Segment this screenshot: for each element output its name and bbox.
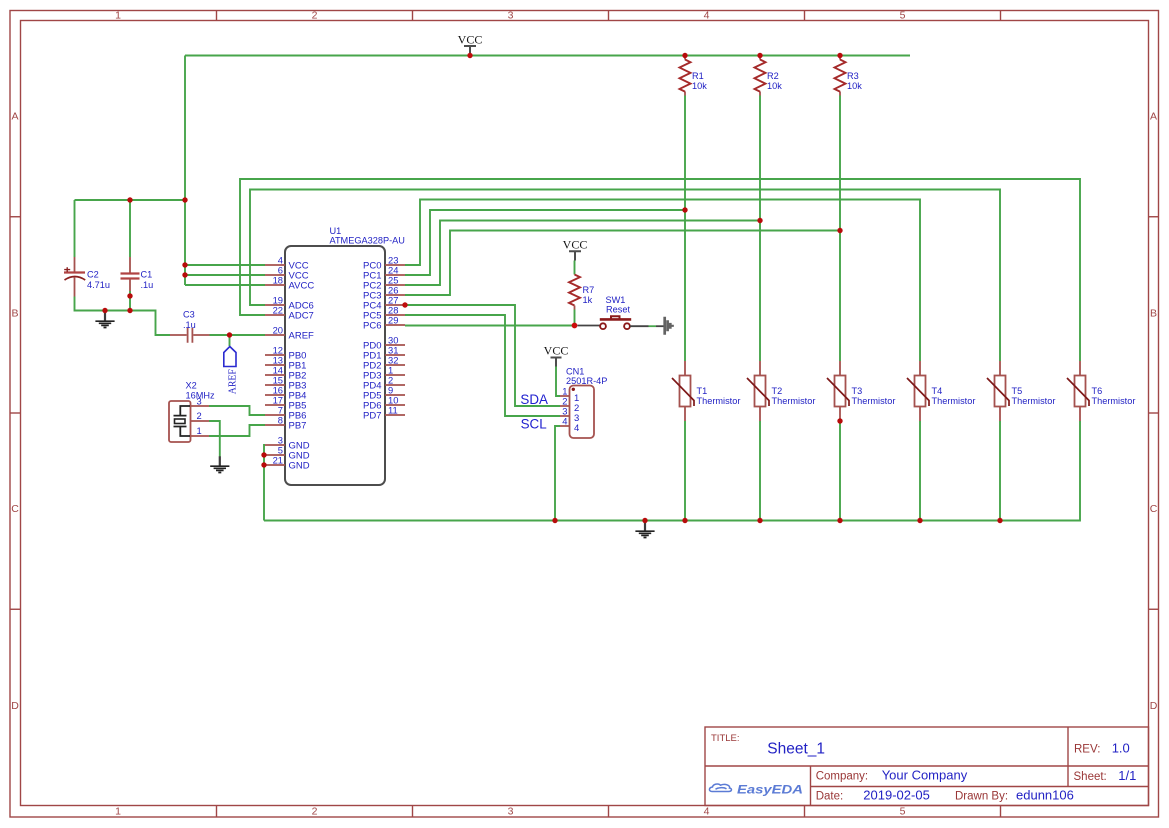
- wire T5 bottom: [999, 421, 1001, 521]
- net flag AREF: [224, 335, 239, 394]
- svg-text:Thermistor: Thermistor: [772, 396, 816, 406]
- svg-text:1: 1: [115, 10, 121, 22]
- svg-text:EasyEDA: EasyEDA: [737, 785, 803, 797]
- wire ADC6 to T5 net: [250, 190, 1000, 362]
- resistor R1: [680, 56, 708, 96]
- junction (405,305): [402, 302, 407, 307]
- wire PC4 to CN1 pin2: [405, 305, 560, 406]
- svg-text:10k: 10k: [767, 81, 782, 91]
- svg-text:C2: C2: [87, 270, 99, 280]
- net flag VCC at R7: [563, 238, 588, 261]
- junction (264,455): [261, 452, 266, 457]
- svg-text:3: 3: [508, 10, 514, 22]
- svg-text:REV:: REV:: [1074, 743, 1100, 755]
- wire PC5 to CN1 pin3: [405, 315, 560, 416]
- wire ADC7 to T6 net: [240, 179, 1080, 361]
- svg-text:1k: 1k: [583, 295, 593, 305]
- junction (760,55.5): [757, 53, 762, 58]
- svg-text:21: 21: [273, 455, 283, 466]
- svg-text:10k: 10k: [847, 81, 862, 91]
- junction (760,520.5): [757, 518, 762, 523]
- junction (130,310.5): [127, 308, 132, 313]
- svg-text:SW1: SW1: [606, 295, 626, 305]
- resistor R3: [835, 56, 863, 96]
- svg-text:5: 5: [900, 10, 906, 22]
- junction (840,520.5): [837, 518, 842, 523]
- U1 right pin names: [363, 261, 381, 422]
- svg-text:T2: T2: [772, 386, 783, 396]
- svg-text:T1: T1: [697, 386, 708, 396]
- wire T2 bottom: [759, 421, 761, 521]
- junction (840,55.5): [837, 53, 842, 58]
- svg-text:VCC: VCC: [544, 344, 569, 358]
- svg-text:B: B: [1150, 308, 1157, 320]
- wire C3 to AREF pin: [210, 334, 266, 336]
- svg-text:.1u: .1u: [141, 280, 154, 290]
- wire R3 to T3: [839, 96, 841, 362]
- wire R1 to T1: [684, 96, 686, 362]
- ground below X2: [210, 456, 229, 472]
- svg-text:C: C: [1150, 503, 1158, 515]
- crystal X2: [169, 381, 215, 443]
- svg-text:Thermistor: Thermistor: [852, 396, 896, 406]
- thermistor T5: [987, 361, 1055, 421]
- svg-text:Thermistor: Thermistor: [932, 396, 976, 406]
- svg-text:Thermistor: Thermistor: [1012, 396, 1056, 406]
- svg-text:AREF: AREF: [289, 331, 315, 342]
- svg-text:3: 3: [197, 396, 202, 407]
- ground left: [95, 311, 114, 328]
- ground at bottom rail: [635, 521, 654, 538]
- svg-text:SCL: SCL: [521, 417, 547, 432]
- capacitor C3: [170, 310, 210, 343]
- junction (105,310.5): [102, 308, 107, 313]
- wire CN1 pin4 to gnd rail: [555, 426, 560, 521]
- svg-text:R7: R7: [583, 285, 595, 295]
- thermistor T6: [1067, 361, 1135, 421]
- svg-text:C: C: [11, 503, 19, 515]
- svg-text:11: 11: [388, 405, 398, 416]
- net flag VCC at CN1: [544, 344, 569, 367]
- svg-text:Thermistor: Thermistor: [697, 396, 741, 406]
- junction (840,421): [837, 418, 842, 423]
- title block: [705, 727, 1149, 806]
- svg-text:C1: C1: [141, 270, 153, 280]
- wire VCC top rail: [185, 55, 910, 57]
- svg-text:2: 2: [312, 806, 318, 818]
- wire X2 pin1 to PB7: [209, 425, 265, 436]
- svg-text:TITLE:: TITLE:: [711, 733, 740, 744]
- svg-text:B: B: [11, 308, 18, 320]
- EasyEDA logo: [709, 784, 803, 796]
- junction VCC top: [467, 53, 472, 58]
- junction (645,520.5): [642, 518, 647, 523]
- junction (685,55.5): [682, 53, 687, 58]
- svg-text:ADC7: ADC7: [289, 311, 314, 322]
- junction (185,275): [182, 272, 187, 277]
- net flag VCC top: [458, 33, 483, 56]
- svg-text:2: 2: [312, 10, 318, 22]
- thermistor T2: [747, 361, 815, 421]
- svg-text:4: 4: [704, 806, 710, 818]
- junction (574.5,325.5): [572, 323, 578, 329]
- svg-text:R3: R3: [847, 71, 859, 81]
- wire PC1 to T1 net: [405, 210, 685, 275]
- junction (555,520.5): [552, 518, 557, 523]
- wire PC2 to T2 net: [405, 221, 760, 286]
- svg-text:SDA: SDA: [520, 392, 548, 407]
- junction (130,200): [127, 197, 132, 202]
- U1 right pin stubs: [385, 265, 405, 415]
- svg-text:A: A: [1150, 111, 1157, 123]
- svg-text:VCC: VCC: [563, 238, 588, 252]
- junction (264,465): [261, 462, 266, 467]
- svg-text:AVCC: AVCC: [289, 281, 315, 292]
- svg-text:4: 4: [704, 10, 710, 22]
- junction (760,220): [757, 218, 762, 223]
- wire VCC to CN1 pin1: [556, 367, 560, 397]
- svg-text:2: 2: [197, 410, 202, 421]
- svg-text:AREF: AREF: [227, 369, 239, 394]
- capacitor C1: [121, 200, 154, 311]
- switch SW1: [578, 295, 664, 329]
- svg-text:Company:: Company:: [816, 771, 868, 783]
- svg-text:4.71u: 4.71u: [87, 280, 110, 290]
- svg-text:8: 8: [278, 415, 283, 426]
- wire VCC feed left: [185, 56, 265, 286]
- svg-text:2501R-4P: 2501R-4P: [566, 376, 607, 386]
- junction (185,265): [182, 262, 187, 267]
- svg-text:X2: X2: [186, 381, 197, 391]
- wire T1 bottom: [684, 421, 686, 521]
- svg-text:5: 5: [900, 806, 906, 818]
- svg-text:CN1: CN1: [566, 367, 584, 377]
- wire PC0 to T4 net: [405, 200, 920, 362]
- junction (185,200): [182, 197, 187, 202]
- svg-text:R1: R1: [692, 71, 704, 81]
- svg-text:Reset: Reset: [606, 305, 630, 315]
- wire PC3 to T3 net: [405, 231, 840, 296]
- junction (840,230.5): [837, 228, 842, 233]
- svg-text:Your Company: Your Company: [882, 768, 968, 783]
- svg-text:2019-02-05: 2019-02-05: [863, 787, 930, 802]
- junction (1000,520.5): [997, 518, 1002, 523]
- thermistor T4: [907, 361, 975, 421]
- U1 left pin names: [289, 261, 315, 472]
- wire C-rail top: [75, 199, 186, 201]
- svg-text:PD7: PD7: [363, 411, 381, 422]
- resistor R2: [755, 56, 783, 96]
- svg-text:18: 18: [273, 275, 283, 286]
- capacitor C2: [64, 200, 110, 297]
- svg-text:Drawn By:: Drawn By:: [955, 790, 1008, 802]
- resistor R7: [569, 261, 594, 326]
- svg-text:D: D: [11, 700, 19, 712]
- svg-text:U1: U1: [330, 226, 342, 236]
- svg-text:4: 4: [574, 423, 579, 434]
- svg-text:T5: T5: [1012, 386, 1023, 396]
- svg-text:Date:: Date:: [816, 790, 844, 802]
- thermistor T1: [672, 361, 740, 421]
- junction (130,296): [127, 293, 132, 298]
- svg-text:Thermistor: Thermistor: [1092, 396, 1136, 406]
- svg-text:1: 1: [197, 425, 202, 436]
- svg-text:Sheet:: Sheet:: [1074, 771, 1107, 783]
- junction (920,520.5): [917, 518, 922, 523]
- U1 left pin numbers: [273, 255, 283, 466]
- svg-text:1.0: 1.0: [1112, 740, 1130, 755]
- wire T3 bottom: [839, 421, 841, 521]
- junction (685,209.5): [682, 207, 687, 212]
- junction (685,520.5): [682, 518, 687, 523]
- svg-text:R2: R2: [767, 71, 779, 81]
- svg-text:1/1: 1/1: [1118, 768, 1136, 783]
- U1 left pin stubs: [265, 265, 285, 465]
- svg-text:.1u: .1u: [183, 320, 196, 330]
- svg-text:Sheet_1: Sheet_1: [767, 740, 825, 757]
- svg-text:edunn106: edunn106: [1016, 787, 1074, 802]
- svg-text:VCC: VCC: [458, 33, 483, 47]
- svg-text:T6: T6: [1092, 386, 1103, 396]
- svg-text:PC6: PC6: [363, 321, 381, 332]
- svg-text:3: 3: [508, 806, 514, 818]
- svg-text:D: D: [1150, 700, 1158, 712]
- wire T4 bottom: [919, 421, 921, 521]
- ground right of SW1: [665, 317, 673, 335]
- svg-text:GND: GND: [289, 461, 310, 472]
- svg-text:PB7: PB7: [289, 421, 307, 432]
- IC U1 ATMEGA328P-AU: [285, 226, 405, 485]
- svg-text:4: 4: [562, 416, 567, 427]
- wire bottom gnd rail: [264, 421, 1080, 521]
- wire GND bus: [264, 445, 265, 521]
- U1 right pin numbers: [388, 255, 398, 416]
- svg-text:ATMEGA328P-AU: ATMEGA328P-AU: [330, 236, 405, 246]
- wire R2 to T2: [759, 96, 761, 362]
- svg-text:29: 29: [388, 315, 398, 326]
- svg-text:C3: C3: [183, 310, 195, 320]
- svg-text:T3: T3: [852, 386, 863, 396]
- connector CN1: [560, 367, 607, 439]
- svg-text:20: 20: [273, 325, 283, 336]
- wire X2 pin3 to PB6: [209, 406, 265, 415]
- svg-text:A: A: [11, 111, 18, 123]
- thermistor T3: [827, 361, 895, 421]
- svg-text:22: 22: [273, 305, 283, 316]
- svg-text:1: 1: [115, 806, 121, 818]
- svg-text:10k: 10k: [692, 81, 707, 91]
- wire C bottom rail: [75, 297, 171, 336]
- wire X2 pin2 to ground: [209, 421, 220, 457]
- svg-text:T4: T4: [932, 386, 943, 396]
- junction (229.5,335): [227, 332, 232, 337]
- wire PC6 to SW1: [405, 325, 577, 327]
